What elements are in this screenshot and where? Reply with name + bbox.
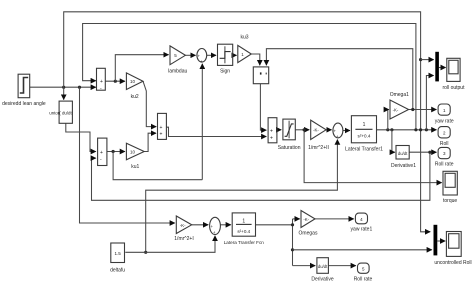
sum circle SC5 <box>333 123 343 138</box>
svg-text:10: 10 <box>130 79 136 84</box>
node: junction v292 tfcn2 <box>291 223 294 226</box>
wire: Derivative1 out to outport3 <box>409 151 436 153</box>
gain ku2 <box>126 73 143 90</box>
svg-text:-: - <box>100 86 102 92</box>
wire: product out down to sum4 input1 <box>260 84 266 130</box>
node: junction roll to line2 <box>414 128 417 131</box>
block Saturation <box>283 119 295 140</box>
node: junction roll to Derivative1 <box>390 128 393 131</box>
svg-text:ku2: ku2 <box>131 94 139 100</box>
svg-text:yaw rate: yaw rate <box>435 119 454 125</box>
wire: mux1 top input <box>421 59 434 61</box>
svg-text:1: 1 <box>241 52 244 57</box>
node: junction sum1 out <box>114 80 117 83</box>
block product <box>253 67 268 84</box>
wire: to Derivative <box>293 265 316 267</box>
wire: sum circle out to Sign <box>207 54 216 56</box>
svg-text:ku3: ku3 <box>240 35 248 41</box>
wire: ku1 out to sum3 input2 <box>144 133 156 151</box>
svg-text:+: + <box>334 129 337 134</box>
wire: deltafu riser into sum5 bottom <box>146 140 338 253</box>
svg-text:Latera Transfer Fcn: Latera Transfer Fcn <box>224 240 265 245</box>
wire: mux1 bottom input <box>426 76 433 130</box>
wire: riser to Omega1 <box>388 110 389 130</box>
svg-text:s²+0.4: s²+0.4 <box>358 134 371 139</box>
node: junction on v1 for mux1 top feed <box>419 58 422 61</box>
outport 1 <box>438 104 450 115</box>
sum circle SC1 <box>197 49 207 63</box>
sum S1 <box>97 68 106 90</box>
scope torque <box>443 171 457 195</box>
source: desiredd lean angle <box>18 74 30 98</box>
wire: sum3 output to sum4 input2 <box>166 127 266 136</box>
wire: desired lean feedforward line1 (top) down to uncontrolled mux <box>64 12 431 232</box>
wire: Tfcn2 out to junction <box>256 224 293 226</box>
svg-text:Roll rate: Roll rate <box>354 276 373 282</box>
gain lambdau <box>170 46 185 65</box>
wire: Omegas out to outport4 <box>315 218 354 220</box>
svg-text:roll output: roll output <box>443 85 466 91</box>
svg-text:ku1: ku1 <box>131 164 139 170</box>
wire: sum2 output to ku1 <box>107 151 125 153</box>
svg-text:uncontrolled Roll: uncontrolled Roll <box>434 260 471 266</box>
wire: torque tap from saturation output down and right to torque scope <box>304 130 442 183</box>
wire: drop to Derivative1 <box>392 130 395 152</box>
sum S4 <box>268 118 277 143</box>
svg-text:Derivative1: Derivative1 <box>391 163 416 169</box>
svg-text:lambdau: lambdau <box>168 68 187 74</box>
wire: sum1 output to ku2 <box>105 80 125 82</box>
gain 1/mr^2+II <box>311 120 326 139</box>
gain Omegas <box>301 211 315 228</box>
svg-text:10: 10 <box>130 149 136 154</box>
wire: ku2 out to sum3 input1 <box>143 81 156 126</box>
sum S3 <box>158 113 167 139</box>
svg-text:Roll: Roll <box>440 141 449 147</box>
wire: gain out to sum5 <box>326 129 331 131</box>
gain ku3 <box>238 45 252 62</box>
gain ku1 <box>126 143 144 160</box>
svg-text:1/mr^2+II: 1/mr^2+II <box>308 145 329 151</box>
svg-text:5: 5 <box>362 267 365 272</box>
wire: mux2 out to scope2 <box>437 240 445 242</box>
node: junction deltafu line to sum5 riser <box>144 251 147 254</box>
svg-text:+: + <box>100 150 103 156</box>
svg-text:-: - <box>100 157 102 163</box>
svg-text:1.5: 1.5 <box>114 251 121 256</box>
svg-text:+: + <box>160 132 163 138</box>
svg-text:Saturation: Saturation <box>278 145 301 151</box>
sum S2 <box>98 138 107 165</box>
block Derivative1 <box>396 146 409 160</box>
wire: v292 <box>292 219 294 266</box>
scope uncontrolled Roll <box>446 232 461 257</box>
wire: untor du/dt output to sum2 input1 <box>66 123 96 151</box>
block Lateral Transfer1 <box>351 116 376 143</box>
outport 3 <box>438 147 450 158</box>
outport 5 <box>358 263 370 273</box>
wire: step down to bottom gain 1/mr^2+I <box>80 87 175 223</box>
wire: gain3 out to sum6 <box>192 224 209 226</box>
svg-text:+: + <box>270 128 273 134</box>
svg-text:+: + <box>100 79 103 85</box>
sum circle SC6 <box>210 217 221 234</box>
mux1 <box>435 52 439 82</box>
svg-text:+: + <box>211 224 214 229</box>
svg-text:2: 2 <box>443 131 446 136</box>
wire: riser to lambdau <box>115 55 168 81</box>
node: junction sum2 out <box>112 150 115 153</box>
wire: sum5 out to Lateral Transfer1 <box>343 130 350 132</box>
wire: Saturation out to gain 1/mr^2+II <box>295 129 309 131</box>
svg-text:deltafu: deltafu <box>110 268 125 274</box>
gain Omega1 <box>390 100 409 119</box>
svg-text:-K-: -K- <box>180 223 186 228</box>
block Derivative <box>317 258 329 274</box>
wire: sum4 out to Saturation <box>277 129 281 131</box>
svg-text:Derivative: Derivative <box>311 276 333 282</box>
svg-text:1/mr^2+I: 1/mr^2+I <box>174 236 193 242</box>
node: junction v292 roll line <box>291 248 294 251</box>
svg-text:-K-: -K- <box>313 128 319 133</box>
svg-text:+: + <box>160 125 163 131</box>
wire: yaw feedback line3 into product input2 <box>266 49 412 110</box>
wire: mux1 out to scope1 <box>439 67 446 69</box>
svg-text:Lateral Transfer1: Lateral Transfer1 <box>345 146 383 152</box>
block: untor du/dt <box>59 101 72 123</box>
svg-text:Omegas: Omegas <box>299 230 318 236</box>
wire: roll-rate feedback L2 to sum2 input2 <box>92 152 430 200</box>
wire: deltafu out to sum6 bottom <box>125 236 215 253</box>
svg-text:desiredd lean angle: desiredd lean angle <box>2 101 46 107</box>
wire: to Omegas <box>293 218 300 220</box>
svg-text:1: 1 <box>242 218 245 224</box>
gain 1/mr^2+I <box>176 216 191 234</box>
wire: ku3 out down into product input1 <box>251 54 259 65</box>
node: junction roll crossing v1 <box>419 128 422 131</box>
svg-text:3: 3 <box>443 151 446 156</box>
wire: roll feedback line2 to sum1 input1 <box>83 24 416 130</box>
wire: Omega1 out to outport1 yaw rate <box>409 109 437 111</box>
node: junction roll to mux1 bottom <box>425 128 428 131</box>
block Sign <box>218 44 233 65</box>
wire: sum2 out drop and run to SC1 riser <box>113 152 202 180</box>
svg-text:du/dt: du/dt <box>318 264 328 269</box>
node: junction on step wire at x=79.5 <box>78 86 81 89</box>
svg-text:Roll rate: Roll rate <box>435 162 454 168</box>
wire: step source output <box>30 86 96 88</box>
svg-text:du/dt: du/dt <box>398 151 408 156</box>
wire: lambdau out to sum circle <box>185 54 195 56</box>
svg-text:5: 5 <box>174 53 177 58</box>
svg-text:+: + <box>270 136 273 142</box>
svg-text:s²+0.4: s²+0.4 <box>237 229 250 234</box>
svg-text:-K-: -K- <box>303 217 309 222</box>
svg-text:4: 4 <box>360 217 363 222</box>
svg-text:+: + <box>198 54 201 59</box>
wire: sum6 out to Lateral Transfer Fcn <box>220 224 230 226</box>
svg-text:yaw rate1: yaw rate1 <box>351 226 373 232</box>
svg-text:Omega1: Omega1 <box>390 92 409 98</box>
wire: riser into sum circle bottom <box>201 64 203 180</box>
wire: Derivative out to outport5 <box>328 265 355 267</box>
outport 4 <box>355 213 367 224</box>
node: junction torque tap <box>303 128 306 131</box>
node: junction roll to Omega1 <box>386 128 389 131</box>
svg-text:1: 1 <box>443 108 446 113</box>
wire: Sign out to ku3 <box>233 54 237 56</box>
block Lateral Transfer Fcn <box>232 213 255 236</box>
node: junction on step wire at x=63.7 <box>62 86 65 89</box>
scope roll output <box>447 58 460 81</box>
svg-text:untor( du/dt: untor( du/dt <box>49 111 72 116</box>
wire: Lateral Transfer1 out (Roll) to outport2 <box>377 129 437 131</box>
svg-text:+: + <box>200 59 203 64</box>
node: junction deriv1 out to L2 <box>428 151 431 154</box>
svg-text:-K-: -K- <box>393 107 399 112</box>
svg-text:1: 1 <box>363 122 366 128</box>
mux2 <box>434 225 438 256</box>
wire: uncontrolled roll to mux2 bottom <box>293 249 432 251</box>
wire: down into untor du/dt <box>63 87 65 99</box>
svg-text:Sign: Sign <box>220 68 230 74</box>
sum port marks <box>100 54 339 236</box>
block deltafu <box>111 243 125 263</box>
svg-text:torque: torque <box>443 198 457 204</box>
outport 2 <box>438 127 450 138</box>
node: junction yaw to line3 <box>411 108 414 111</box>
